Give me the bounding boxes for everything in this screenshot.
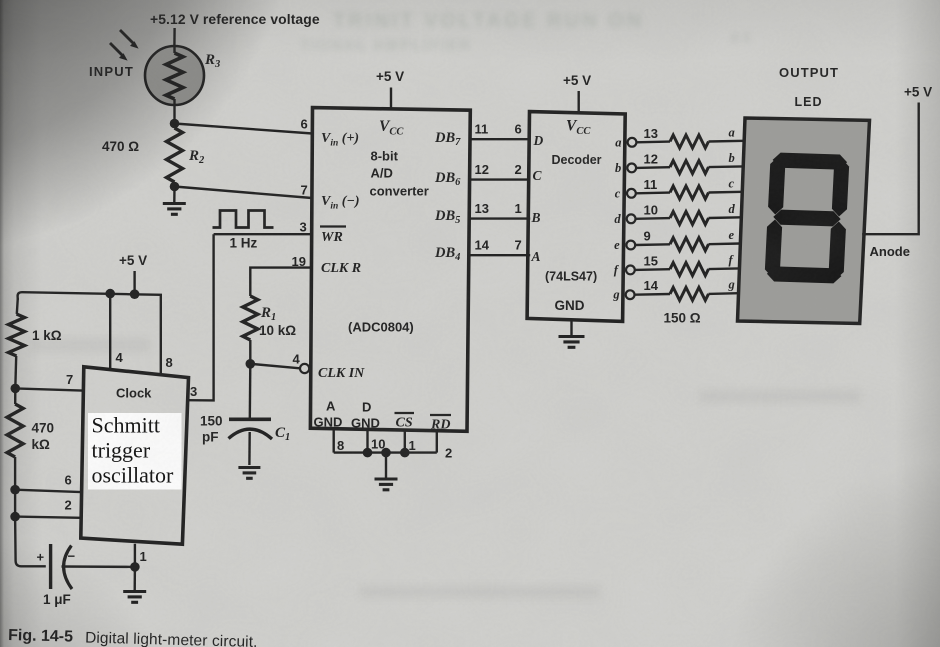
wire node to ADC pin 7 [175, 187, 312, 199]
wire R2 bottom to ground [173, 187, 176, 204]
label pin 8 (clock) [166, 355, 173, 370]
label LED [795, 95, 823, 109]
junction left rail / clock pin 6 [10, 485, 20, 495]
wire +5V stub to ADC Vcc [390, 88, 392, 110]
wire resistor to LED segment e [709, 242, 741, 245]
wire top bus of clock section [18, 292, 161, 375]
label 1 uF [43, 592, 71, 607]
label pin 12 (ADC DB6) [475, 162, 489, 177]
label c (LED segment) [729, 176, 735, 190]
wire left rail down to capacitor [15, 490, 46, 567]
label 150 Ohm (segment resistors value) [664, 311, 701, 326]
ground below R2 [163, 204, 186, 215]
label b (decoder output) [615, 161, 621, 175]
label pin 2 (clock) [65, 498, 72, 513]
resistor 150 Ohm (f) [670, 263, 709, 276]
wire resistor to LED segment f [709, 267, 740, 270]
wire decoder d to resistor [636, 217, 671, 220]
node +5V label (clock section) [119, 253, 147, 268]
pin bubble decoder output b [627, 164, 636, 173]
IC U3 74LS47 decoder box [527, 112, 625, 322]
label pin 12 (decoder b) [644, 151, 658, 166]
junction R2 bottom / Vin- node [170, 182, 180, 192]
junction left rail / clock pin 2 [10, 512, 20, 522]
node +5V label (anode) [904, 85, 932, 100]
wire ADC pin 2 stub [436, 431, 438, 453]
label pin 3 (clock) [190, 384, 197, 399]
resistor 150 Ohm (a) [670, 135, 709, 148]
label OUTPUT [779, 65, 839, 80]
wire resistor to LED segment b [709, 165, 744, 168]
IC clock (schmitt trigger oscillator) box [81, 367, 189, 544]
wire ADC DB4 to decoder [469, 254, 531, 256]
wire WR row to ADC pin 3 [214, 233, 312, 235]
wire ADC ground bus [334, 451, 437, 453]
label pin 1 (clock) [140, 549, 147, 564]
resistor 150 Ohm (c) [670, 186, 709, 199]
label pin 6 (ADC Vin+) [301, 117, 308, 132]
label a (LED segment) [729, 125, 735, 139]
resistor 1 kOhm [9, 314, 25, 356]
label B (decoder input) [531, 210, 541, 225]
label pin 14 (ADC DB4) [475, 238, 490, 253]
label WR with overline [320, 227, 346, 246]
label 150 pF [200, 414, 223, 445]
wire bus to ground [385, 453, 387, 479]
junction bus / pin 1 [400, 448, 410, 458]
junction clock pin 1 / ground [130, 562, 140, 572]
wire resistor to LED segment d [709, 216, 742, 219]
wire decoder GND stub [570, 320, 572, 336]
wire +5.12V supply to R3 top [173, 28, 176, 47]
pin bubble decoder output a [628, 138, 637, 147]
wire to clock pin 6 [15, 490, 81, 492]
wire clock pin 4 stub [109, 294, 111, 370]
label pin 7 (ADC Vin-) [301, 183, 308, 198]
LED digit segment a [773, 153, 848, 170]
label pin 19 (ADC CLK R) [292, 254, 306, 269]
LED digit segment f [768, 157, 785, 215]
ground below C1 [238, 468, 260, 479]
wire 470k to junction [14, 457, 16, 490]
wire node to ground [133, 567, 136, 591]
LED digit segment g [773, 210, 840, 227]
light input arrows [110, 30, 139, 61]
wire node to ADC pin 6 [175, 124, 313, 134]
wire to clock pin 7 [15, 388, 82, 390]
label 470 kOhm [32, 421, 55, 453]
label pin 8 (A GND) [337, 438, 344, 453]
label a (decoder output) [615, 135, 621, 149]
label + (capacitor polarity) [37, 550, 45, 565]
wire 1k to junction [14, 356, 17, 388]
wire decoder b to resistor [636, 166, 670, 169]
junction bus / +5V stub [130, 289, 140, 299]
junction bus / ground tap [381, 448, 391, 458]
wire left rail upper segment [17, 298, 18, 314]
label pin 7 (decoder input) [515, 238, 522, 253]
label 1 Hz [230, 236, 258, 251]
resistor R1 [243, 296, 258, 340]
label CS with overline [395, 413, 415, 431]
junction left rail / clock pin 7 [11, 384, 21, 394]
LED digit segment d [767, 266, 842, 283]
label (ADC0804) [348, 320, 414, 335]
annotation overlay Schmitt trigger oscillator [88, 413, 182, 490]
wire decoder a to resistor [636, 140, 670, 143]
wire C1 to ground [248, 432, 251, 465]
label (74LS47) [545, 270, 597, 284]
label pin 2 (decoder input) [515, 162, 522, 177]
wire resistor to LED segment g [709, 292, 739, 295]
label pin 6 (clock) [65, 473, 72, 488]
wire capacitor to clock pin 1 node [62, 565, 135, 568]
wire ADC DB6 to decoder [469, 178, 531, 180]
label g (LED segment) [728, 278, 735, 292]
ground below clock pin 1 [123, 592, 146, 603]
resistor 150 Ohm (g) [670, 287, 709, 300]
label 8-bit A/D converter [370, 149, 429, 199]
wire clock pin 1 stub [134, 544, 136, 567]
capacitor C1 curved plate [229, 429, 273, 439]
label 1 kOhm [32, 328, 62, 343]
wire ADC pin 1 stub [404, 430, 406, 453]
label DB5 (ADC) [434, 208, 460, 226]
capacitor 1 uF negative curved plate [64, 546, 72, 590]
label pin 11 (decoder c) [644, 177, 658, 192]
wire R1 bottom to junction [249, 340, 251, 364]
LED digit segment e [765, 220, 782, 278]
label Anode [870, 244, 910, 259]
label CLK IN [318, 366, 365, 381]
resistor 150 Ohm (d) [670, 212, 709, 225]
label f (LED segment) [729, 253, 735, 267]
label 10 kOhm [259, 323, 296, 338]
label Decoder [552, 153, 602, 167]
label - (capacitor polarity) [68, 549, 76, 564]
junction R1 / C1 / CLK IN [246, 359, 256, 369]
resistor 470 kOhm [7, 388, 23, 457]
label b (LED segment) [729, 151, 735, 165]
wire ADC DB5 to decoder [469, 217, 531, 219]
photoresistor R3 [145, 46, 204, 105]
wire R3 junction down to R2 [173, 104, 175, 128]
label pin 4 (ADC CLK IN) [293, 352, 301, 367]
label DB4 (ADC) [434, 245, 460, 263]
label C (decoder input) [533, 168, 543, 183]
label R2 [188, 148, 205, 166]
label Clock [116, 386, 152, 401]
label pin 11 (ADC DB7) [475, 122, 489, 137]
LED digit segment b [832, 159, 849, 217]
wire +5V stub to bus [133, 271, 135, 295]
IC U1 ADC0804 box [310, 108, 470, 432]
label c (decoder output) [615, 186, 621, 200]
wire resistor to LED segment c [709, 191, 743, 194]
wire +5V stub to decoder Vcc [578, 91, 580, 113]
label D (decoder input) [533, 133, 544, 148]
wire junction to CLK IN bubble [250, 364, 300, 369]
junction R3 bottom / Vin+ node [170, 119, 180, 129]
pin bubble decoder output e [626, 241, 635, 250]
wire decoder f to resistor [635, 268, 670, 271]
resistor R2 [167, 128, 183, 182]
capacitor 1 uF positive plate [49, 544, 52, 589]
wire anode +5V down and to LED [862, 103, 919, 235]
node +5.12 V reference voltage label [150, 11, 320, 27]
label pin 13 (decoder a) [644, 126, 658, 141]
label pin 10 (decoder d) [644, 202, 658, 217]
label pin 14 (decoder g) [644, 278, 659, 293]
LED seven-segment display body [738, 118, 870, 324]
label A GND (ADC) [314, 399, 343, 430]
wire ADC DB7 to decoder [469, 138, 531, 140]
label pin 9 (decoder e) [644, 229, 651, 244]
label GND (decoder) [555, 298, 585, 313]
junction bus / pin 10 [363, 448, 373, 458]
label RD with overline [430, 415, 451, 433]
label e (decoder output) [614, 238, 620, 252]
label pin 1 (decoder input) [515, 201, 522, 216]
wire clock pin 3 to WR vertical [188, 234, 213, 400]
wire decoder c to resistor [636, 191, 670, 194]
label pin 10 (D GND) [371, 437, 385, 452]
wire resistor to LED segment a [709, 140, 745, 143]
label D GND (ADC) [351, 400, 380, 431]
wire decoder e to resistor [635, 243, 670, 246]
caption Fig. 14-5 Digital light-meter circuit [8, 627, 258, 647]
capacitor C1 top plate [229, 417, 271, 421]
label pin 4 (clock) [116, 350, 124, 365]
pin bubble decoder output f [626, 266, 635, 275]
label DB6 (ADC) [434, 170, 461, 188]
pin bubble decoder output g [626, 290, 635, 299]
label pin 3 (ADC WR) [300, 220, 307, 235]
label f (decoder output) [614, 263, 620, 277]
wire ADC pin 10 stub [366, 429, 368, 452]
pin bubble decoder output d [627, 214, 636, 223]
label pin 7 (clock) [66, 372, 73, 387]
label e (LED segment) [729, 228, 735, 242]
wire junction down to C1 [249, 364, 252, 420]
label R1 [260, 305, 276, 323]
INPUT label [89, 64, 134, 79]
label pin 13 (ADC DB5) [475, 201, 489, 216]
wire to clock pin 2 [15, 517, 81, 518]
LED digit segment c [829, 222, 846, 280]
wire CLK R row [250, 268, 312, 296]
label Vcc (decoder) [566, 118, 591, 138]
wire ADC pin 8 stub [333, 429, 335, 453]
ground below decoder [559, 337, 585, 348]
label CLK R [321, 261, 361, 276]
node +5V label (ADC) [376, 69, 404, 84]
label R3 [204, 52, 220, 70]
ground below ADC [375, 479, 398, 490]
label pin 15 (decoder f) [644, 253, 658, 268]
label g (decoder output) [612, 288, 619, 302]
label A (decoder input) [531, 249, 541, 264]
node +5V label (decoder) [563, 73, 591, 88]
label 470 Ohm (R2 value) [102, 139, 139, 154]
wire decoder g to resistor [635, 293, 671, 296]
resistor 150 Ohm (e) [670, 238, 709, 251]
label d (decoder output) [614, 212, 621, 226]
label Vin(-) [321, 194, 360, 212]
label pin 2 (RD) [445, 446, 452, 461]
label pin 1 (CS) [409, 438, 416, 453]
label Vcc (ADC) [379, 118, 404, 138]
label pin 6 (decoder input) [515, 122, 522, 137]
label d (LED segment) [729, 202, 736, 216]
pin bubble decoder output c [627, 189, 636, 198]
junction bus / clock pin 4 [105, 289, 115, 299]
label C1 [275, 425, 290, 443]
resistor 150 Ohm (b) [670, 161, 709, 174]
label DB7 (ADC) [434, 130, 461, 148]
label Vin(+) [321, 131, 359, 149]
pin bubble CLK IN (pin 4) [300, 364, 309, 373]
square wave 1 Hz symbol [213, 211, 274, 228]
